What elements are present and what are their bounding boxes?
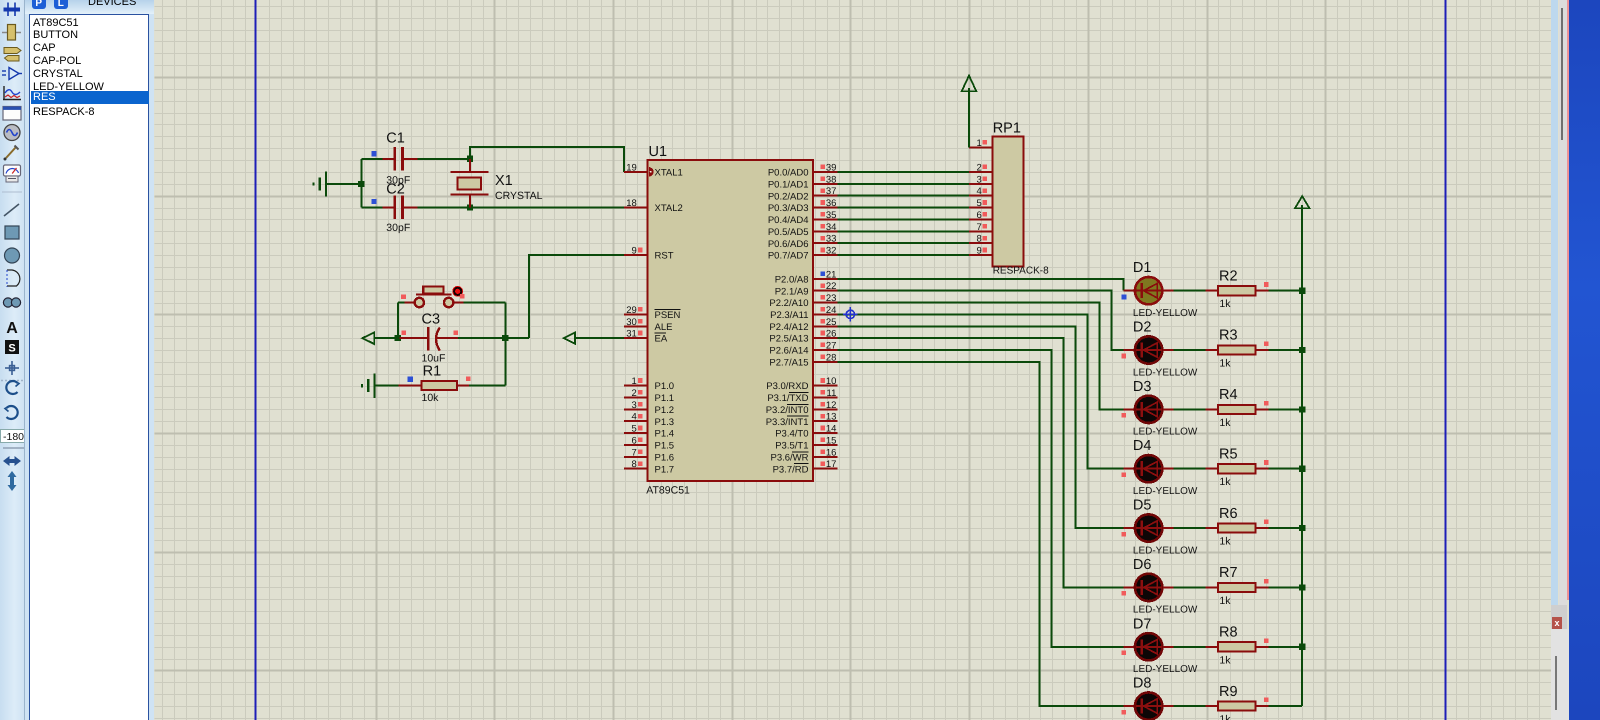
svg-text:P2.5/A13: P2.5/A13 — [769, 334, 808, 345]
pin 15 (P3.5/T1) — [813, 444, 838, 446]
wire P2.7 to D8 — [838, 362, 1124, 706]
toolbar icon generator — [4, 125, 20, 141]
pin 16 (P3.6/WR) — [813, 456, 838, 458]
wire C1 to XTAL1 — [470, 147, 624, 172]
wire D5 to R6 — [1173, 527, 1205, 529]
wire P0.1 to RP1 — [838, 183, 970, 185]
svg-text:29: 29 — [626, 305, 637, 316]
sheet border left — [254, 0, 256, 720]
pin 3 (RP1) — [969, 183, 993, 185]
svg-text:P0.6/AD6: P0.6/AD6 — [768, 239, 809, 250]
LED D2 (LED-YELLOW) — [1124, 336, 1174, 363]
node C1/C2 junction — [358, 181, 364, 187]
pin 34 (P0.5/AD5) — [813, 230, 838, 232]
wire P0.5 to RP1 — [838, 230, 970, 232]
svg-text:LED-YELLOW: LED-YELLOW — [1133, 427, 1198, 438]
pin 26 (P2.5/A13) — [813, 337, 838, 339]
wire EA — [575, 337, 624, 339]
pin 29 (PSEN) — [624, 313, 648, 315]
pin 1 (P1.0) — [624, 385, 648, 387]
panel title — [88, 0, 136, 8]
svg-text:D5: D5 — [1133, 498, 1152, 514]
svg-text:P3.6/WR: P3.6/WR — [770, 452, 808, 463]
svg-text:4: 4 — [977, 186, 982, 197]
node bus D7 — [1299, 644, 1305, 650]
svg-text:P1.3: P1.3 — [655, 417, 675, 428]
svg-text:P2.0/A8: P2.0/A8 — [775, 274, 809, 285]
resistor R3 (1k) — [1206, 345, 1269, 354]
svg-text:U1: U1 — [649, 144, 668, 160]
svg-text:1k: 1k — [1219, 417, 1231, 429]
pin 4 (P1.3) — [624, 420, 648, 422]
svg-text:P0.1/AD1: P0.1/AD1 — [768, 179, 809, 190]
resistor R2 (1k) — [1206, 286, 1269, 295]
pin 24 (P2.3/A11) — [813, 313, 838, 315]
svg-text:24: 24 — [826, 305, 837, 316]
svg-text:23: 23 — [826, 293, 837, 304]
wire gnd to C1/C2 node — [326, 183, 361, 185]
toolbar icon pin — [2, 68, 22, 80]
svg-text:P3.0/RXD: P3.0/RXD — [766, 381, 808, 392]
svg-text:P1.6: P1.6 — [655, 452, 675, 463]
svg-text:P0.3/AD3: P0.3/AD3 — [768, 203, 809, 214]
wire VCC to bus — [1301, 205, 1303, 291]
resistor R9 (1k) — [1206, 702, 1269, 711]
svg-text:7: 7 — [632, 447, 637, 458]
toolbar icon rotate ccw — [5, 406, 18, 419]
svg-text:P2.7/A15: P2.7/A15 — [769, 357, 808, 368]
svg-text:27: 27 — [826, 341, 837, 352]
button P — [32, 0, 47, 9]
svg-text:19: 19 — [626, 162, 637, 173]
svg-text:R4: R4 — [1219, 387, 1238, 403]
pin 6 (RP1) — [969, 218, 993, 220]
wire P0.6 to RP1 — [838, 242, 970, 244]
pin 17 (P3.7/RD) — [813, 468, 838, 470]
svg-text:P0.7/AD7: P0.7/AD7 — [768, 251, 809, 262]
pin 7 (RP1) — [969, 230, 993, 232]
svg-text:18: 18 — [626, 198, 637, 209]
wire reset node horizontal left — [374, 337, 427, 339]
svg-text:R9: R9 — [1219, 684, 1238, 700]
right window edge strips — [1551, 0, 1558, 720]
toolbar icon window — [3, 107, 21, 121]
wire P2.0 to D1 — [838, 279, 1124, 291]
LED D3 (LED-YELLOW) — [1124, 396, 1174, 423]
pin 31 (EA) — [624, 337, 648, 339]
node C2/X1 — [467, 204, 473, 210]
wire P2.1 to D2 — [838, 291, 1124, 350]
svg-text:1k: 1k — [1219, 654, 1231, 666]
svg-text:1k: 1k — [1219, 358, 1231, 370]
toolbar icon circle — [5, 248, 20, 263]
pin 32 (P0.7/AD7) — [813, 254, 838, 256]
svg-text:LED-YELLOW: LED-YELLOW — [1133, 664, 1198, 675]
pin 11 (P3.1/TXD) — [813, 396, 838, 398]
svg-text:D4: D4 — [1133, 438, 1152, 454]
svg-text:P2.2/A10: P2.2/A10 — [769, 298, 808, 309]
svg-text:RP1: RP1 — [993, 121, 1021, 137]
node C1/X1 — [467, 156, 473, 162]
toolbar icon probe — [4, 146, 19, 161]
svg-text:A: A — [6, 320, 18, 337]
wire P0.2 to RP1 — [838, 195, 970, 197]
button actuator mark — [452, 286, 463, 297]
svg-text:P3.5/T1: P3.5/T1 — [775, 441, 808, 452]
ground (C1/C2) — [313, 172, 326, 197]
svg-text:15: 15 — [826, 435, 837, 446]
LED D5 (LED-YELLOW) — [1124, 514, 1174, 541]
wire C2 to XTAL2 — [418, 206, 624, 208]
wire P2.6 to D7 — [838, 350, 1124, 647]
wire D7 to R8 — [1173, 646, 1205, 648]
wire P0.3 to RP1 — [838, 207, 970, 209]
resistor R8 (1k) — [1206, 642, 1269, 651]
svg-text:P3.3/INT1: P3.3/INT1 — [766, 417, 809, 428]
pin 3 (P1.2) — [624, 408, 648, 410]
pin 6 (P1.5) — [624, 444, 648, 446]
pin 2 (P1.1) — [624, 396, 648, 398]
pin 10 (P3.0/RXD) — [813, 385, 838, 387]
toolbar icon rotate cw — [6, 381, 19, 394]
svg-text:D3: D3 — [1133, 379, 1152, 395]
svg-text:10: 10 — [826, 376, 837, 387]
pin 18 (XTAL2) — [624, 207, 648, 209]
pin 27 (P2.6/A14) — [813, 349, 838, 351]
button L — [54, 0, 69, 9]
svg-text:P0.2/AD2: P0.2/AD2 — [768, 191, 809, 202]
wire R8 to bus — [1269, 646, 1303, 648]
pin 21 (P2.0/A8) — [813, 278, 838, 280]
wire R9 to bus — [1269, 705, 1303, 707]
svg-text:38: 38 — [826, 174, 837, 185]
small window close button — [1551, 605, 1567, 630]
power terminal VCC (RP1) — [962, 76, 977, 92]
svg-text:1k: 1k — [1219, 714, 1231, 720]
node bus D2 — [1299, 347, 1305, 353]
svg-text:6: 6 — [632, 435, 637, 446]
svg-text:P1.7: P1.7 — [655, 464, 675, 475]
svg-text:22: 22 — [826, 281, 837, 292]
node bus D1 — [1299, 288, 1305, 294]
svg-text:P3.7/RD: P3.7/RD — [773, 464, 809, 475]
pin 36 (P0.3/AD3) — [813, 207, 838, 209]
pin 23 (P2.2/A10) — [813, 302, 838, 304]
toolbar icon component — [2, 25, 21, 41]
toolbar icon symbol — [5, 340, 19, 355]
svg-text:39: 39 — [826, 162, 837, 173]
svg-text:4: 4 — [632, 412, 637, 423]
svg-text:P3.4/T0: P3.4/T0 — [775, 429, 808, 440]
svg-text:P3.2/INT0: P3.2/INT0 — [766, 405, 809, 416]
svg-text:21: 21 — [826, 269, 837, 280]
svg-text:LED-YELLOW: LED-YELLOW — [1133, 486, 1198, 497]
svg-text:13: 13 — [826, 412, 837, 423]
wire D1 to R2 — [1173, 290, 1205, 292]
svg-text:P2.4/A12: P2.4/A12 — [769, 322, 808, 333]
wire D2 to R3 — [1173, 349, 1205, 351]
capacitor C2 — [361, 196, 417, 220]
wire P2.4 to D5 — [838, 326, 1124, 528]
svg-text:R7: R7 — [1219, 565, 1238, 581]
svg-text:8: 8 — [632, 459, 637, 470]
pin 1 (RP1) — [969, 146, 993, 148]
svg-text:37: 37 — [826, 186, 837, 197]
toolbar icon box — [5, 226, 19, 239]
svg-text:C2: C2 — [386, 182, 405, 198]
clock bump XTAL1 — [649, 167, 654, 177]
svg-text:12: 12 — [826, 400, 837, 411]
svg-text:5: 5 — [632, 424, 637, 435]
pin 4 (RP1) — [969, 195, 993, 197]
wire R5 to bus — [1269, 468, 1303, 470]
device list box — [29, 14, 149, 720]
node bus D6 — [1299, 584, 1305, 590]
svg-text:9: 9 — [632, 246, 637, 257]
pin 12 (P3.2/INT0) — [813, 408, 838, 410]
pin 14 (P3.4/T0) — [813, 432, 838, 434]
svg-text:8: 8 — [977, 234, 982, 245]
resistor R7 (1k) — [1206, 583, 1269, 592]
svg-text:P2.6/A14: P2.6/A14 — [769, 346, 808, 357]
svg-text:17: 17 — [826, 459, 837, 470]
sheet border right — [1444, 0, 1446, 720]
wire D4 to R5 — [1173, 468, 1205, 470]
svg-text:5: 5 — [977, 198, 982, 209]
svg-text:P3.1/TXD: P3.1/TXD — [767, 393, 808, 404]
wire D6 to R7 — [1173, 586, 1205, 588]
IC U1 (AT89C51 microcontroller) — [648, 160, 814, 481]
LED D8 (LED-YELLOW) — [1124, 692, 1174, 719]
svg-text:35: 35 — [826, 210, 837, 221]
svg-text:3: 3 — [632, 400, 637, 411]
node bus D4 — [1299, 466, 1305, 472]
svg-text:31: 31 — [626, 329, 637, 340]
wire R1 to node — [504, 338, 506, 385]
pin 22 (P2.1/A9) — [813, 290, 838, 292]
svg-text:C3: C3 — [422, 311, 441, 327]
svg-text:2: 2 — [977, 162, 982, 173]
svg-text:1: 1 — [977, 138, 982, 149]
svg-text:CRYSTAL: CRYSTAL — [495, 190, 543, 202]
node origin crosshair — [843, 307, 858, 322]
svg-text:30pF: 30pF — [386, 222, 410, 234]
svg-text:D6: D6 — [1133, 557, 1152, 573]
svg-text:36: 36 — [826, 198, 837, 209]
wire R2 to bus — [1269, 290, 1303, 292]
node button-right/R1 — [502, 335, 508, 341]
pin 5 (RP1) — [969, 207, 993, 209]
svg-text:R8: R8 — [1219, 624, 1238, 640]
power terminal VCC (LED bus) — [1295, 196, 1310, 208]
svg-text:R5: R5 — [1219, 446, 1238, 462]
toolbar icon path — [3, 298, 20, 307]
wire P0.0 to RP1 — [838, 171, 970, 173]
wire VCC to RP1 pin1 — [968, 88, 970, 147]
svg-text:16: 16 — [826, 447, 837, 458]
pin 39 (P0.0/AD0) — [813, 171, 838, 173]
resistor R6 (1k) — [1206, 523, 1269, 532]
svg-text:14: 14 — [826, 424, 837, 435]
LED D7 (LED-YELLOW) — [1124, 633, 1174, 660]
wire C1-C2 vertical — [360, 159, 362, 208]
pin 33 (P0.6/AD6) — [813, 242, 838, 244]
toolbar icon marker — [5, 361, 19, 375]
wire P2.3 to D4 — [838, 314, 1124, 468]
svg-text:D2: D2 — [1133, 320, 1152, 336]
wire R4 to bus — [1269, 408, 1303, 410]
svg-text:RST: RST — [655, 251, 674, 262]
LED D1 (LED-YELLOW) — [1124, 277, 1174, 304]
wire R7 to bus — [1269, 586, 1303, 588]
svg-text:LED-YELLOW: LED-YELLOW — [1133, 605, 1198, 616]
svg-text:XTAL1: XTAL1 — [655, 168, 683, 179]
svg-text:28: 28 — [826, 352, 837, 363]
svg-text:R1: R1 — [423, 364, 442, 380]
toolbar icon meter — [4, 165, 21, 182]
svg-text:6: 6 — [977, 210, 982, 221]
svg-text:XTAL2: XTAL2 — [655, 203, 683, 214]
resistor R1 — [376, 381, 506, 390]
toolbar icon mirror-v — [8, 471, 17, 491]
ground (R1) — [362, 373, 375, 398]
capacitor C1 — [361, 147, 470, 171]
svg-text:P0.0/AD0: P0.0/AD0 — [768, 168, 809, 179]
pin 37 (P0.2/AD2) — [813, 195, 838, 197]
LED D4 (LED-YELLOW) — [1124, 455, 1174, 482]
svg-text:1: 1 — [632, 376, 637, 387]
svg-text:P2.1/A9: P2.1/A9 — [775, 286, 809, 297]
svg-text:PSEN: PSEN — [655, 310, 681, 321]
svg-text:25: 25 — [826, 317, 837, 328]
svg-text:LED-YELLOW: LED-YELLOW — [1133, 308, 1198, 319]
svg-text:D1: D1 — [1133, 260, 1152, 276]
svg-text:1k: 1k — [1219, 536, 1231, 548]
crystal X1 — [451, 159, 489, 208]
pin 2 (RP1) — [969, 171, 993, 173]
svg-text:P1.5: P1.5 — [655, 441, 675, 452]
pin 9 (RP1) — [969, 254, 993, 256]
pin 28 (P2.7/A15) — [813, 361, 838, 363]
pin 30 (ALE) — [624, 325, 648, 327]
svg-text:10k: 10k — [422, 392, 440, 404]
svg-text:P1.4: P1.4 — [655, 429, 675, 440]
toolbar icon arc — [7, 270, 20, 287]
pin 25 (P2.4/A12) — [813, 325, 838, 327]
svg-text:LED-YELLOW: LED-YELLOW — [1133, 367, 1198, 378]
wire P2.2 to D3 — [838, 303, 1124, 410]
wire to button right — [504, 303, 506, 339]
pin 13 (P3.3/INT1) — [813, 420, 838, 422]
wire P0.4 to RP1 — [838, 218, 970, 220]
power terminal (EA) — [564, 333, 575, 344]
LED D6 (LED-YELLOW) — [1124, 574, 1174, 601]
wire reset node horizontal right — [437, 337, 529, 339]
resistor pack RP1 (RESPACK-8) — [993, 137, 1024, 267]
svg-text:1k: 1k — [1219, 595, 1231, 607]
svg-text:11: 11 — [827, 388, 837, 399]
pin 8 (RP1) — [969, 242, 993, 244]
wire R3 to bus — [1269, 349, 1303, 351]
toolbar icon terminal — [4, 3, 21, 17]
svg-text:33: 33 — [826, 234, 837, 245]
node bus D3 — [1299, 406, 1305, 412]
pin 19 (XTAL1) — [624, 171, 648, 173]
svg-text:30: 30 — [626, 317, 637, 328]
pin 8 (P1.7) — [624, 468, 648, 470]
svg-text:EA: EA — [655, 334, 668, 345]
toolbar icon mirror-h — [3, 456, 21, 466]
svg-text:C1: C1 — [386, 131, 405, 147]
svg-text:P0.4/AD4: P0.4/AD4 — [768, 215, 809, 226]
pin 9 (RST) — [624, 254, 648, 256]
wire D8 to R9 — [1173, 705, 1205, 707]
svg-text:7: 7 — [977, 222, 982, 233]
toolbar angle box — [1, 430, 28, 443]
svg-text:3: 3 — [977, 174, 982, 185]
toolbar icon graph — [3, 86, 21, 100]
resistor R4 (1k) — [1206, 405, 1269, 414]
power terminal (left, reset net) — [363, 332, 375, 344]
capacitor C3 (10uF polarized) — [399, 327, 505, 351]
svg-text:ALE: ALE — [655, 322, 673, 333]
svg-text:34: 34 — [826, 222, 837, 233]
svg-text:R2: R2 — [1219, 268, 1238, 284]
svg-text:P1.1: P1.1 — [655, 393, 675, 404]
toolbar icon tags — [4, 48, 21, 62]
svg-text:AT89C51: AT89C51 — [646, 485, 690, 497]
svg-text:-180: -180 — [3, 431, 24, 443]
svg-text:1k: 1k — [1219, 476, 1231, 488]
svg-text:2: 2 — [632, 388, 637, 399]
resistor R5 (1k) — [1206, 464, 1269, 473]
left icon toolbar — [0, 0, 25, 720]
wire to button left — [397, 303, 399, 339]
svg-text:RESPACK-8: RESPACK-8 — [993, 266, 1049, 277]
node bus D5 — [1299, 525, 1305, 531]
wire R6 to bus — [1269, 527, 1303, 529]
wire P2.5 to D6 — [838, 338, 1124, 587]
pin 35 (P0.4/AD4) — [813, 218, 838, 220]
svg-text:32: 32 — [826, 246, 837, 257]
svg-text:S: S — [8, 343, 15, 355]
svg-text:LED-YELLOW: LED-YELLOW — [1133, 545, 1198, 556]
wire RST — [529, 255, 624, 338]
pin 38 (P0.1/AD1) — [813, 183, 838, 185]
svg-text:D8: D8 — [1133, 676, 1152, 692]
pin 5 (P1.4) — [624, 432, 648, 434]
svg-text:R6: R6 — [1219, 506, 1238, 522]
devices panel — [25, 0, 154, 720]
svg-text:P1.0: P1.0 — [655, 381, 675, 392]
wire D3 to R4 — [1173, 408, 1205, 410]
toolbar icon line — [4, 204, 19, 216]
node button-left — [395, 335, 401, 341]
svg-text:9: 9 — [977, 246, 982, 257]
svg-text:X1: X1 — [495, 173, 513, 189]
svg-text:D7: D7 — [1133, 616, 1152, 632]
svg-text:P0.5/AD5: P0.5/AD5 — [768, 227, 809, 238]
svg-text:P1.2: P1.2 — [655, 405, 675, 416]
svg-text:26: 26 — [826, 329, 837, 340]
pin 7 (P1.6) — [624, 456, 648, 458]
svg-text:1k: 1k — [1219, 298, 1231, 310]
wire P0.7 to RP1 — [838, 254, 970, 256]
svg-text:R3: R3 — [1219, 328, 1238, 344]
svg-text:P2.3/A11: P2.3/A11 — [770, 310, 808, 321]
wire bus vertical — [1301, 291, 1303, 706]
